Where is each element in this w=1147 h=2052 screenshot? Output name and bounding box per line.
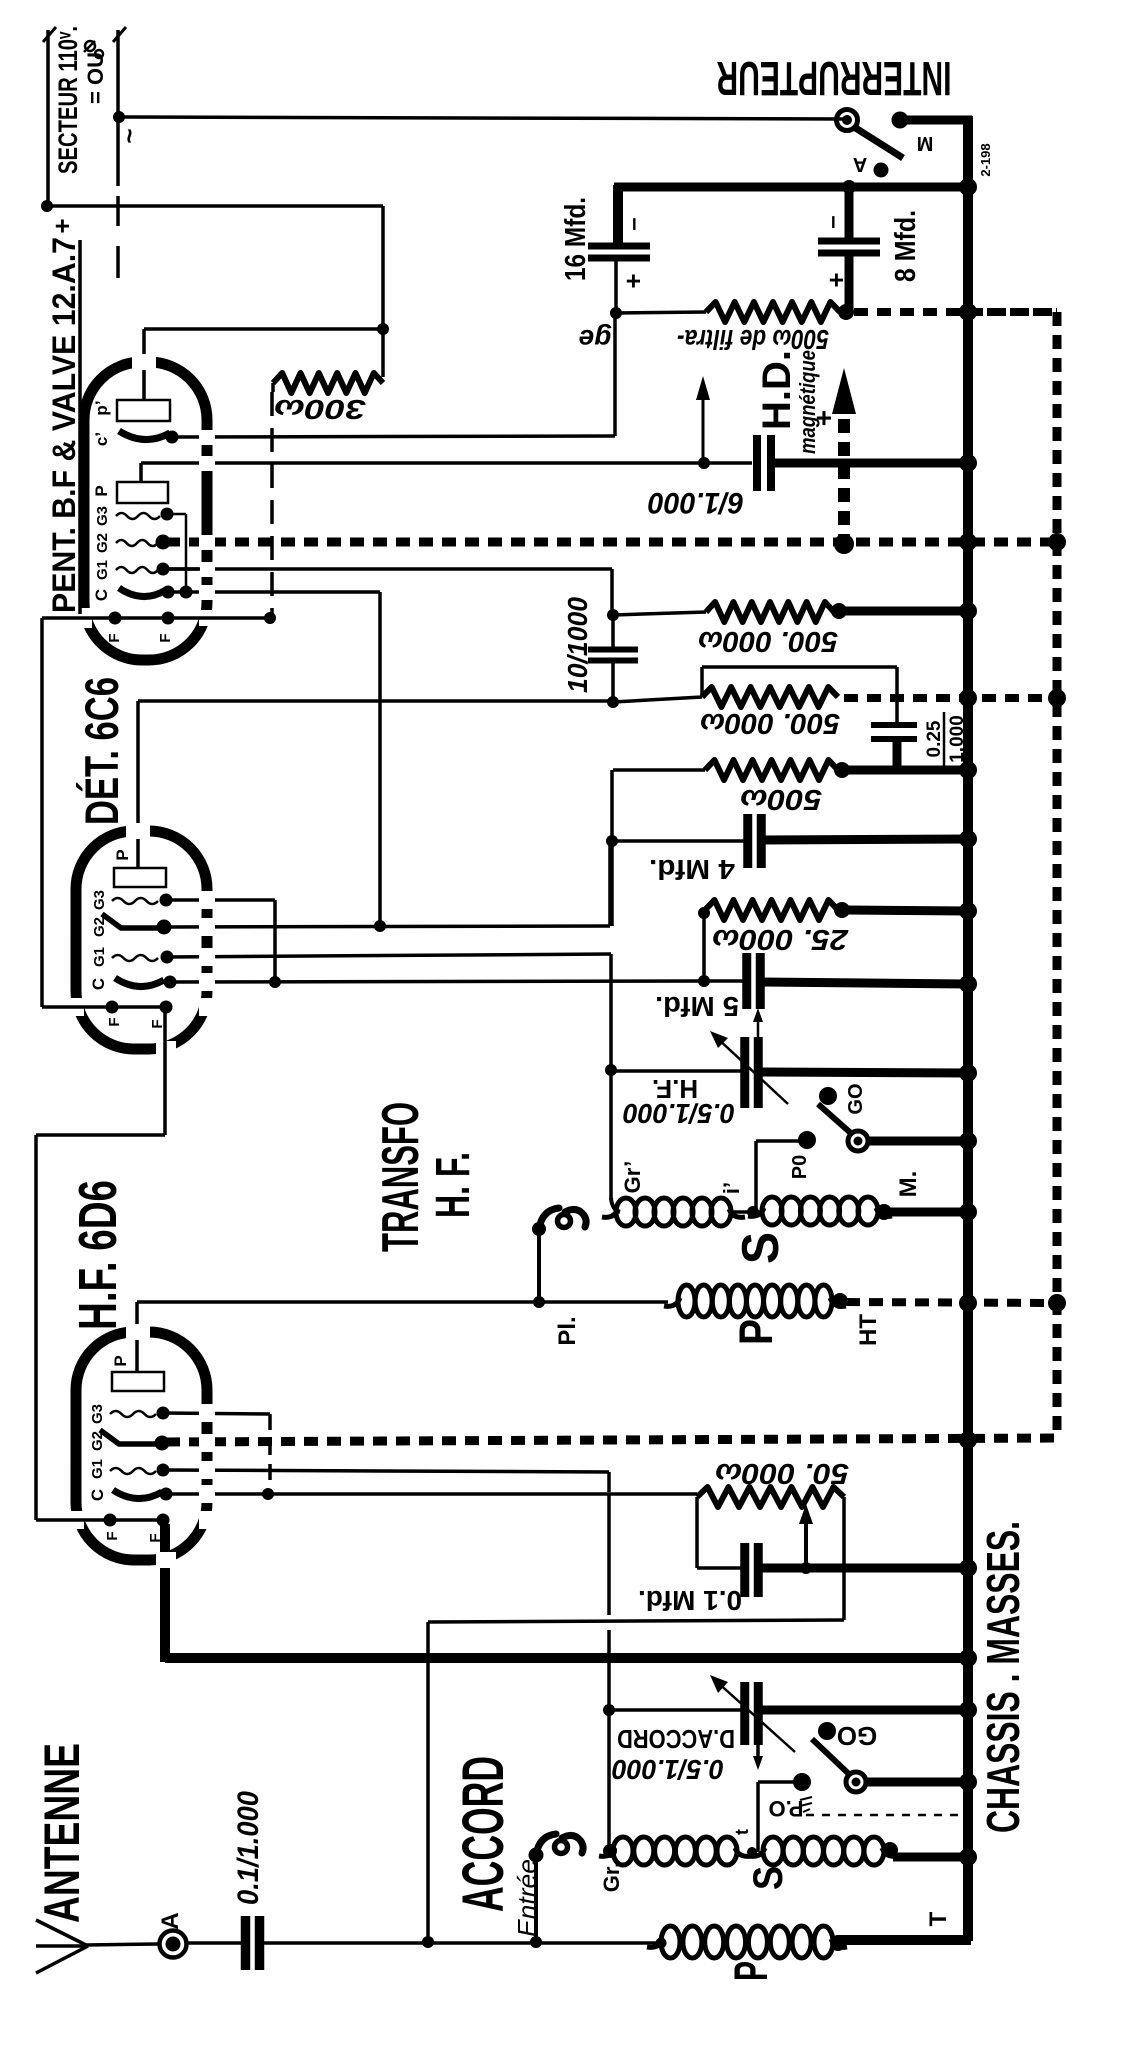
svg-text:0.25: 0.25 — [924, 720, 945, 757]
wire decoupling rect top — [700, 667, 704, 697]
wire 16Mfd bottom lead — [614, 258, 618, 313]
tube 6D6 envelope — [76, 1332, 207, 1560]
node bus junction y1857 — [959, 1848, 977, 1866]
resistor 500.000ohm plate load — [702, 687, 838, 707]
bus dashed filtrage to HT vertical — [854, 308, 1057, 316]
wire screen vertical — [610, 770, 614, 926]
svg-text:G2: G2 — [89, 1431, 106, 1451]
electrode C arc 6D6 — [113, 1490, 162, 1499]
contact PO dot sw1 — [793, 1773, 811, 1791]
wire 4Mfd lead — [612, 839, 748, 843]
node accord tap — [747, 1847, 757, 1857]
svg-text:0.1 Mfd.: 0.1 Mfd. — [638, 1585, 742, 1616]
node HF cap node — [605, 1064, 617, 1076]
node G3 tie dot — [262, 1488, 274, 1500]
svg-text:INTERRUPTEUR: INTERRUPTEUR — [717, 51, 952, 104]
svg-text:M.: M. — [895, 1171, 922, 1198]
coil Gr accord — [613, 1837, 633, 1865]
node bus junction y187 — [959, 178, 977, 196]
svg-text:F: F — [106, 1017, 123, 1026]
capacitor 0.5/1.000 D.ACCORD variable — [740, 1682, 749, 1745]
wire 25.000 down to 5Mfd node — [702, 913, 706, 981]
svg-text:~: ~ — [114, 128, 144, 143]
resistor 500.000ohm grid leak — [706, 602, 834, 622]
wire 6D6 plate line — [137, 1300, 539, 1304]
wire top feed line y187 — [614, 183, 968, 192]
bus dashed HT top corner link — [964, 308, 1057, 316]
capacitor 0.5/1.000 HF variable — [740, 1037, 749, 1108]
arrow HF diagonal — [716, 1037, 788, 1104]
svg-text:TRANSFO: TRANSFO — [372, 1102, 430, 1252]
wire cathode down x609 — [607, 1494, 611, 1615]
arrow HF small up — [757, 1018, 760, 1040]
terminal A ring — [160, 1931, 187, 1958]
wire cap to bus thick — [758, 1564, 968, 1573]
svg-text:25. 000ω: 25. 000ω — [712, 923, 849, 955]
wire 8Mfd bottom lead — [845, 253, 854, 312]
svg-text:i’: i’ — [719, 1182, 744, 1194]
wire 16Mfd top lead — [613, 185, 623, 247]
svg-text:P: P — [724, 1961, 777, 1981]
node HT vertical junction y542 — [1048, 533, 1066, 551]
svg-text:SECTEUR 110ᵛ.: SECTEUR 110ᵛ. — [53, 26, 83, 174]
wire heater chain mid — [163, 1007, 167, 1135]
wire 8Mfd top lead — [845, 187, 854, 241]
wire cathode 6D6 — [163, 1492, 697, 1496]
svg-text:4 Mfd.: 4 Mfd. — [649, 854, 735, 885]
resistor 500ohm de filtrage — [706, 302, 840, 322]
electrode P' rect 12A7 — [117, 400, 170, 421]
wire G1 exit — [163, 567, 200, 571]
bus dashed G2 6D6 — [166, 1438, 1055, 1442]
svg-text:= OU: = OU — [83, 52, 108, 104]
svg-text:p’: p’ — [92, 400, 111, 415]
svg-text:2-198: 2-198 — [978, 143, 993, 176]
svg-text:G2: G2 — [91, 917, 108, 937]
wire + rail to B+ branch — [47, 204, 383, 208]
hatch marks near P.O — [800, 1797, 812, 1812]
capacitor 0.1/1.000 antenna — [241, 1916, 251, 1970]
switch sw1 lever — [812, 1739, 850, 1775]
wire M to main bus corner — [899, 116, 972, 125]
svg-text:P0: P0 — [789, 1155, 811, 1179]
coil S' secondary — [762, 1197, 782, 1225]
node bus junction y1073 — [959, 1064, 977, 1082]
wire leak lead — [613, 612, 706, 615]
svg-text:c’: c’ — [92, 432, 111, 446]
svg-text:S: S — [732, 1232, 790, 1264]
svg-text:H.F. 6D6: H.F. 6D6 — [68, 1180, 128, 1330]
electrode C arc 12A7 — [119, 588, 166, 597]
hook coupling transfo — [537, 1229, 541, 1302]
node bus junction y1568 — [959, 1559, 977, 1577]
bus dashed plate load to HT — [844, 694, 1057, 702]
svg-text:F: F — [157, 633, 174, 642]
arrow HD magnetique thick dashed — [838, 412, 850, 548]
svg-text:0.5/1.000: 0.5/1.000 — [612, 1754, 724, 1785]
capacitor 4Mfd — [743, 814, 752, 868]
wire heater F 6C6 — [42, 1005, 166, 1009]
node HD thin arrow junction — [698, 457, 710, 469]
svg-text:M: M — [917, 132, 934, 154]
node bus junction y1710 — [959, 1701, 977, 1719]
capacitor 16Mfd — [588, 243, 650, 250]
svg-text:500ω: 500ω — [740, 783, 822, 815]
svg-text:C: C — [88, 1489, 107, 1501]
switch interrupteur pivot terminal — [837, 110, 858, 131]
wire HF trimmer lead — [611, 1069, 745, 1073]
node 8Mfd top junction — [842, 180, 856, 194]
node bus junction y984 — [959, 975, 977, 993]
wire G1 of 12A7 to coupling cap — [166, 567, 612, 571]
resistor 50.000ohm pot — [697, 1487, 844, 1507]
electrode C arc 6C6 — [115, 978, 164, 987]
node 25.000 right blob — [834, 902, 850, 918]
capacitor 0.25/1.000 — [871, 722, 917, 728]
svg-text:G1: G1 — [94, 560, 111, 580]
svg-text:H.F.: H.F. — [652, 1074, 698, 1104]
resistor 25.000ohm — [705, 900, 838, 920]
svg-text:10/1000: 10/1000 — [562, 597, 593, 693]
svg-text:P: P — [111, 1355, 130, 1366]
svg-text:5 Mfd.: 5 Mfd. — [655, 991, 739, 1022]
wire G2 6C6 horizontal — [166, 926, 610, 927]
svg-text:+: + — [47, 218, 77, 233]
electrode P rect 6C6 — [114, 868, 166, 887]
resistor 300ohm — [273, 373, 383, 393]
grid G1 6C6 — [112, 955, 158, 961]
node P coil start dot — [656, 1938, 667, 1949]
wire G3 tie 12A7 — [167, 513, 186, 516]
bus chassis main vertical — [963, 116, 973, 1941]
secteur right rail — [116, 30, 120, 186]
wire PO to tap — [758, 1780, 795, 1784]
svg-text:T: T — [925, 1911, 952, 1926]
svg-text:G3: G3 — [91, 890, 108, 910]
arrow daccord diagonal — [716, 1681, 795, 1752]
wire 5Mfd to bus thick — [760, 982, 968, 984]
capacitor 5Mfd — [742, 953, 751, 1009]
wire G1 6D6 — [163, 1470, 609, 1472]
node screen node dot — [606, 835, 618, 847]
grid G3 6D6 — [110, 1411, 156, 1417]
wire heater chain left — [40, 618, 44, 1007]
wire 0.25 cap bottom stub — [893, 741, 902, 770]
svg-text:H.D.: H.D. — [755, 350, 799, 430]
resistor 500ohm screen — [705, 760, 838, 780]
node bus junction y1212 — [959, 1203, 977, 1221]
svg-text:Gr.: Gr. — [599, 1862, 624, 1893]
node 16Mfd bottom junction — [610, 307, 622, 319]
node S' right blob — [876, 1204, 892, 1220]
node G2 6C6 junction — [374, 920, 386, 932]
electrode C' arc 12A7 — [119, 431, 170, 440]
svg-text:ANTENNE: ANTENNE — [34, 1743, 90, 1923]
svg-text:G3: G3 — [89, 1404, 106, 1424]
tube 12A7 envelope — [84, 362, 207, 660]
svg-text:G2: G2 — [94, 533, 111, 553]
svg-text:H. F.: H. F. — [427, 1152, 480, 1218]
node tap junction — [747, 1206, 759, 1218]
switch sw2 pivot — [848, 1131, 868, 1151]
capacitor 8Mfd — [818, 238, 880, 245]
node 6C6 plate node — [607, 696, 619, 708]
wire dashed bias line down to heater wire — [270, 392, 274, 618]
svg-text:C: C — [89, 978, 108, 990]
wire 500 to bus thick — [846, 766, 968, 775]
capacitor 6/1.000 — [753, 435, 761, 491]
node HD arrow base — [834, 534, 854, 554]
svg-text:F: F — [147, 1533, 164, 1542]
node HT vertical junction y698 — [1048, 689, 1066, 707]
rail end ticks — [43, 27, 56, 42]
svg-text:P: P — [729, 1319, 782, 1345]
svg-text:P: P — [113, 849, 132, 860]
node 500 right blob — [834, 762, 850, 778]
node bus junction y1658 — [959, 1649, 977, 1667]
svg-text:16 Mfd.: 16 Mfd. — [560, 197, 592, 281]
node P accord right dot — [830, 1935, 846, 1951]
svg-text:A: A — [853, 153, 867, 175]
node mains junction on right rail — [113, 111, 125, 123]
wire S to bus thick — [893, 1853, 968, 1862]
svg-text:GO: GO — [837, 1721, 877, 1751]
wire daccord to bus thick — [761, 1706, 968, 1715]
svg-text:DÉT. 6C6: DÉT. 6C6 — [75, 677, 128, 825]
wire HF trimmer to bus thick — [761, 1072, 968, 1073]
node bus junction y839 — [959, 830, 977, 848]
svg-text:6/1.000: 6/1.000 — [648, 486, 744, 519]
svg-text:–: – — [819, 215, 846, 228]
wire pot cap link — [697, 1566, 745, 1570]
svg-text:Pl.: Pl. — [554, 1316, 581, 1345]
node 25.000 left dot — [698, 907, 710, 919]
wire cap top lead — [611, 615, 615, 650]
svg-text:8 Mfd.: 8 Mfd. — [890, 210, 922, 282]
wire plate line to coil — [539, 1300, 668, 1304]
electrode P rect 6D6 — [112, 1372, 164, 1391]
svg-text:1.000: 1.000 — [947, 715, 968, 763]
svg-text:–: – — [620, 217, 647, 230]
svg-text:GO: GO — [845, 1083, 867, 1114]
wire P plate of 12A7 to HD cap — [139, 463, 143, 482]
node Gr coil top dot — [603, 1844, 617, 1858]
coil P primary transfo — [678, 1285, 695, 1317]
arrow HD terminal thin — [702, 395, 705, 463]
svg-text:+: + — [618, 273, 648, 288]
bus bottom corner to T — [840, 1935, 971, 1945]
grid G3 6C6 — [112, 898, 158, 904]
wire mechanical dashed link — [806, 1814, 962, 1817]
wire G3 6C6 tie — [166, 898, 275, 902]
node entree junction — [530, 1936, 542, 1948]
svg-text:0.1/1.000: 0.1/1.000 — [232, 1791, 265, 1905]
bus dashed HT from P winding — [846, 1302, 1057, 1303]
electrode P rect 12A7 — [117, 482, 168, 503]
node plate line junction — [533, 1296, 545, 1308]
node bus junction y911 — [959, 902, 977, 920]
svg-text:500. 000ω: 500. 000ω — [700, 707, 840, 739]
node HT vertical junction y1303 — [1048, 1294, 1066, 1312]
switch sw1 pivot — [846, 1772, 866, 1792]
switch interrupteur lever — [854, 127, 903, 158]
bus dashed HT vertical — [1053, 312, 1062, 1438]
wire pot left down — [695, 1497, 699, 1568]
hook entree — [534, 1855, 538, 1942]
wire antenna to terminal — [86, 1944, 158, 1945]
svg-text:300ω: 300ω — [274, 394, 366, 425]
svg-text:S: S — [744, 1866, 791, 1890]
wire C' cathode to 16Mfd junction — [172, 436, 615, 437]
grid G1 6D6 — [110, 1468, 156, 1474]
wire G1 6C6 — [167, 954, 611, 957]
wire junction down to resistor 300 — [381, 329, 385, 377]
svg-text:G1: G1 — [91, 947, 108, 967]
grid G2 12A7 — [116, 540, 158, 546]
wire PO to winding tap — [756, 1139, 800, 1143]
wire chassis thick horizontal — [165, 1653, 968, 1663]
svg-text:t: t — [732, 1829, 752, 1835]
wire 6C6 plate to node — [138, 699, 613, 703]
wire S' to bus M — [888, 1208, 968, 1217]
node bus junction y1141 — [959, 1132, 977, 1150]
contact A dot — [874, 163, 889, 178]
svg-text:CHASSIS . MASSES.: CHASSIS . MASSES. — [977, 1521, 1029, 1833]
svg-text:A: A — [157, 1912, 184, 1929]
coil P accord primary — [661, 1926, 680, 1958]
wire antenna line to coil — [262, 1941, 657, 1945]
node wiper base — [800, 1562, 812, 1574]
capacitor 0.1Mfd — [740, 1543, 749, 1597]
node bus junction y1782 — [959, 1773, 977, 1791]
wire terminal to cap — [187, 1941, 243, 1945]
wire HD cap to bus thick — [772, 459, 968, 468]
wire pot right down — [842, 1497, 846, 1620]
node bus junction y611 — [959, 602, 977, 620]
node grid node — [607, 609, 619, 621]
wire det grid line — [170, 981, 704, 982]
wire 500 left lead — [613, 768, 705, 772]
wire grid vertical down to transfo — [609, 978, 613, 1200]
label underline — [78, 240, 82, 614]
contact GO dot sw1 — [818, 1722, 836, 1740]
wire 5Mfd lead — [704, 979, 747, 983]
wire AVC line — [428, 1620, 844, 1622]
svg-text:500. 000ω: 500. 000ω — [698, 625, 838, 657]
node det junction x275 — [269, 976, 281, 988]
svg-text:50. 000ω: 50. 000ω — [715, 1457, 849, 1489]
wire tap link — [731, 1210, 760, 1214]
node daccord node — [603, 1704, 615, 1716]
node bus crossing y1303 — [959, 1294, 977, 1312]
svg-text:P: P — [92, 485, 111, 496]
node S right blob — [882, 1842, 898, 1858]
svg-text:D.ACCORD: D.ACCORD — [617, 1724, 735, 1754]
grid G3 12A7 — [116, 513, 160, 519]
grid G2 6C6 thick — [102, 914, 159, 928]
svg-text:G1: G1 — [89, 1459, 106, 1479]
contact PO dot sw2 — [798, 1131, 816, 1149]
node 5Mfd node — [698, 975, 710, 987]
wire mains line to interrupteur — [119, 117, 843, 119]
svg-text:C: C — [92, 589, 111, 601]
svg-text:magnétique: magnétique — [795, 350, 820, 454]
wire load lead — [613, 697, 702, 702]
wire sw2 pivot to bus — [867, 1137, 968, 1146]
wire 4Mfd to bus thick — [761, 839, 968, 840]
wire G3 6D6 tie — [163, 1413, 270, 1414]
node bus crossing y698 — [959, 689, 977, 707]
switch sw2 lever — [818, 1104, 853, 1135]
wire 300ohm left stub — [271, 383, 275, 392]
grid G1 12A7 — [116, 567, 158, 573]
svg-text:ge: ge — [579, 324, 613, 355]
svg-text:Gr’: Gr’ — [620, 1161, 645, 1194]
svg-text:P.O: P.O — [768, 1796, 803, 1821]
svg-text:F: F — [106, 633, 123, 642]
arrow pot wiper — [804, 1516, 808, 1568]
wire sw1 pivot to bus — [865, 1778, 968, 1787]
coil Gr' secondary — [616, 1198, 636, 1226]
wire cap bottom lead — [611, 661, 615, 702]
wire P to bus corner thick — [838, 1935, 966, 1945]
node HT bus crossing y542 — [959, 533, 977, 551]
contact GO dot sw2 — [819, 1087, 837, 1105]
svg-text:F: F — [104, 1531, 121, 1540]
node filtrage right blob — [838, 304, 854, 320]
svg-text:HT: HT — [855, 1314, 882, 1346]
tube 6C6 envelope — [76, 831, 207, 1049]
node bus crossing — [959, 303, 977, 321]
antenna symbol — [36, 1920, 88, 1946]
coil S accord — [763, 1837, 783, 1865]
node B+ junction — [377, 323, 389, 335]
wire 12A7 cathode down — [378, 592, 382, 926]
wire chassis thick from 6D6 F — [160, 1524, 170, 1662]
wire leak to bus thick — [843, 607, 968, 616]
svg-text:G3: G3 — [94, 506, 111, 526]
wire daccord lead — [609, 1708, 745, 1712]
wire heater F 12A7 — [42, 616, 270, 620]
svg-text:ACCORD: ACCORD — [451, 1756, 516, 1912]
node P right blob — [832, 1293, 848, 1309]
wire 25.000 to bus thick — [846, 910, 968, 911]
bus dashed G2 12A7 HT line — [166, 538, 1057, 547]
svg-text:+: + — [808, 410, 839, 426]
svg-text:PENT. B.F & VALVE 12.A.7: PENT. B.F & VALVE 12.A.7 — [46, 237, 82, 613]
node bus junction y770 — [959, 761, 977, 779]
secteur left rail — [46, 30, 50, 206]
contact M dot — [892, 112, 909, 129]
grid G2 6D6 thick — [100, 1430, 157, 1444]
node + terminal on left rail — [41, 200, 53, 212]
node leak right blob — [831, 603, 847, 619]
capacitor 10/1000 coupling — [588, 647, 638, 653]
wire 16Mfd junction to resistor — [616, 312, 706, 313]
wire heater F 6D6 — [36, 1518, 163, 1522]
node bus crossing y1440 — [959, 1431, 977, 1449]
wire junction to P' plate of 12A7 — [144, 327, 383, 331]
node avc junction — [422, 1936, 434, 1948]
node bus junction y463 — [959, 454, 977, 472]
